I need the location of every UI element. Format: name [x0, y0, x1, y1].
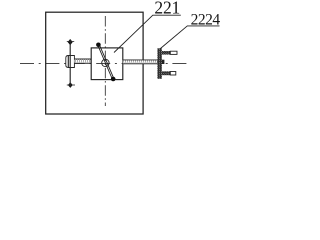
- hub cylinder: [66, 56, 75, 68]
- stem bottom tick: [67, 84, 75, 86]
- right threaded shaft: [123, 60, 158, 64]
- svg-text:221: 221: [154, 0, 180, 18]
- stem vertical rod: [69, 40, 71, 87]
- disc end dot top: [96, 43, 101, 48]
- housing box: [91, 48, 123, 80]
- butterfly disc (double line): [99, 44, 114, 79]
- stem top tick: [67, 41, 74, 43]
- leader line for 221: [114, 15, 181, 52]
- bracket bottom arm: [162, 71, 170, 75]
- bracket vertical bar (crosshatched): [157, 48, 162, 79]
- left threaded shaft: [74, 59, 91, 63]
- svg-text:2224: 2224: [191, 12, 220, 29]
- horizontal center line: [20, 62, 189, 64]
- bracket top nut (open): [170, 51, 177, 54]
- leader line for 2224: [160, 26, 219, 49]
- disc end dot bottom: [111, 77, 116, 82]
- shaft dark tip through bracket: [157, 60, 164, 64]
- bracket top arm: [162, 51, 170, 55]
- stem top diamond: [68, 39, 73, 45]
- vertical center line: [104, 16, 106, 106]
- bracket bottom nut (open): [170, 72, 176, 76]
- stem bottom diamond: [68, 82, 73, 88]
- shaft circle: [102, 59, 109, 66]
- enclosure box: [46, 12, 143, 114]
